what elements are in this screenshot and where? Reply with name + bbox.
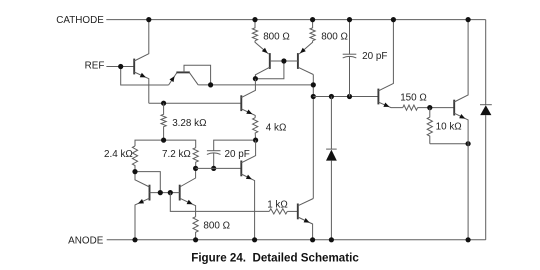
node Q9 base junction — [427, 105, 432, 110]
wire D1 upper lead — [330, 97, 332, 150]
node Q4-base 3.28k junction — [161, 101, 166, 106]
wire base net to 1k resistor — [170, 193, 269, 212]
transistor Q6 PNP mirror right — [299, 41, 313, 54]
node anode-QA junction — [132, 237, 137, 242]
svg-text:1 kΩ: 1 kΩ — [267, 200, 288, 211]
wire anode rail — [107, 239, 486, 241]
node 7.2k bottom junction — [193, 166, 198, 171]
svg-text:800 Ω: 800 Ω — [263, 32, 290, 43]
node 4k bottom junction — [253, 138, 258, 143]
wire REF node vertical — [121, 67, 169, 86]
svg-text:REF: REF — [85, 61, 105, 72]
wire Q5-Q6 base tie — [270, 60, 298, 62]
svg-text:20 pF: 20 pF — [225, 149, 250, 160]
svg-text:CATHODE: CATHODE — [56, 15, 104, 26]
transistor Q4 — [240, 95, 242, 111]
wire mid-left horizontal net — [135, 140, 196, 148]
wire D2 to anode rail — [485, 115, 487, 240]
diode D2 — [480, 104, 492, 106]
node cathode-Q9 junction — [466, 17, 471, 22]
transistor Q1 — [133, 59, 135, 75]
resistor R4 3.28 kohm — [161, 103, 166, 140]
transistor Q1 base wire — [121, 66, 135, 68]
node REF junction — [118, 64, 123, 69]
node cathode-R1 junction — [252, 17, 257, 22]
node anode-800 junction — [193, 237, 198, 242]
wire REF lead — [106, 66, 120, 68]
node base link junction 1 — [158, 190, 163, 195]
node QA collector junction — [132, 169, 137, 174]
svg-text:4 kΩ: 4 kΩ — [266, 123, 287, 134]
capacitor C2 20 pF — [343, 53, 357, 55]
resistor R6 7.2 kohm — [193, 148, 198, 169]
node 3.28k bottom junction — [161, 138, 166, 143]
transistor Q8 — [377, 89, 379, 105]
resistor R1 800 ohm left — [252, 20, 257, 41]
wire Q3 collector to center node — [198, 84, 313, 86]
node mirror base junction — [281, 58, 286, 63]
wire cap C2 upper lead — [349, 20, 351, 55]
svg-text:Figure 24. Detailed Schematic: Figure 24. Detailed Schematic — [191, 251, 359, 264]
resistor R5 2.4 kohm — [132, 146, 137, 172]
diode D1 — [326, 148, 337, 150]
svg-text:2.4 kΩ: 2.4 kΩ — [104, 149, 133, 160]
svg-text:800 Ω: 800 Ω — [321, 32, 348, 43]
resistor R2 800 ohm right — [310, 20, 315, 41]
resistor R3 4 kohm — [253, 118, 258, 140]
wire comp2 net 7.2k node to Q7 base — [196, 167, 242, 169]
wire center vertical Q6-collector to Q10-collector — [312, 75, 314, 199]
resistor R10 10 kohm — [427, 108, 432, 144]
transistor QB right — [179, 185, 181, 201]
transistor Q7 — [240, 161, 242, 177]
node Q5 collector junction — [253, 76, 258, 81]
node cathode-C2 junction — [347, 17, 352, 22]
node center-REF junction — [311, 82, 316, 87]
resistor R8 1 kohm — [269, 209, 287, 214]
resistor R7 800 ohm bottom — [193, 217, 198, 240]
node anode-Q7 junction — [252, 237, 257, 242]
wire 20pF tap to 4k bottom — [214, 140, 256, 151]
wire Q1 emitter to Q4 base — [149, 102, 242, 104]
wire 150 ohm to Q9 base — [418, 107, 455, 109]
transistor Q9 output — [453, 100, 455, 116]
transistor Q10 — [297, 204, 299, 220]
capacitor C1 20 pF — [207, 150, 221, 152]
svg-text:ANODE: ANODE — [68, 235, 104, 246]
svg-text:20 pF: 20 pF — [362, 51, 387, 62]
svg-text:150 Ω: 150 Ω — [400, 93, 427, 104]
wire comp net to Q8 base — [313, 96, 378, 98]
transistor QA left mirrored — [149, 185, 151, 201]
transistor Q3 lateral PNP diode-connected — [169, 73, 177, 85]
node cap C2 bottom junction — [347, 94, 352, 99]
wire mirror base-collector link — [255, 61, 284, 79]
svg-text:800 Ω: 800 Ω — [203, 220, 230, 231]
wire cathode rail — [106, 19, 485, 21]
node anode-Q10 junction — [310, 237, 315, 242]
node cathode-Q1 junction — [146, 17, 151, 22]
svg-text:7.2 kΩ: 7.2 kΩ — [162, 149, 191, 160]
transistor Q5 PNP mirror left — [255, 41, 269, 54]
node Q3 collector junction — [208, 82, 213, 87]
svg-text:10 kΩ: 10 kΩ — [436, 122, 462, 133]
wire base to QA collector diode link — [135, 172, 160, 193]
wire Q3 base loop — [184, 65, 211, 85]
wire QA-QB base tie — [150, 192, 180, 194]
wire right-edge drop cathode to D2 — [485, 20, 487, 105]
node cathode-R2 junction — [310, 17, 315, 22]
wire D1 lower lead — [330, 161, 332, 240]
resistor R9 150 ohm — [403, 105, 418, 110]
node anode-Q9 junction — [466, 237, 471, 242]
node cathode-Q8 junction — [391, 17, 396, 22]
node center-comp junction — [311, 94, 316, 99]
svg-text:3.28 kΩ: 3.28 kΩ — [172, 118, 206, 129]
wire 10k to Q9 emitter — [430, 143, 468, 145]
node anode-D1 junction — [329, 237, 334, 242]
node base link junction 2 — [168, 190, 173, 195]
node D1 top junction — [329, 94, 334, 99]
wire 1k to Q10 base — [287, 210, 298, 212]
node cap C1 bottom junction — [211, 166, 216, 171]
node Q9 emitter junction — [466, 141, 471, 146]
